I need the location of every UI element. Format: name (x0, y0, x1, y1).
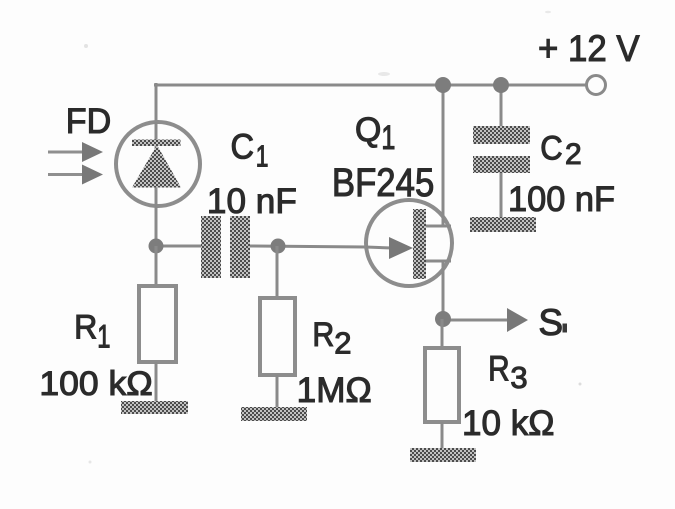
svg-text:1: 1 (381, 119, 395, 157)
svg-text:FD: FD (66, 102, 111, 141)
svg-text:100 kΩ: 100 kΩ (39, 365, 152, 403)
svg-text:R: R (74, 308, 97, 346)
svg-text:+ 12 V: + 12 V (538, 27, 640, 69)
svg-text:10 kΩ: 10 kΩ (462, 403, 555, 443)
svg-text:2: 2 (565, 138, 582, 171)
svg-text:3: 3 (510, 360, 527, 395)
svg-text:R: R (488, 350, 510, 389)
svg-text:10 nF: 10 nF (207, 181, 297, 221)
svg-text:2: 2 (334, 326, 351, 361)
svg-text:1MΩ: 1MΩ (297, 371, 372, 410)
svg-text:100 nF: 100 nF (508, 179, 615, 219)
svg-text:BF245: BF245 (332, 161, 434, 205)
svg-text:C: C (231, 127, 255, 166)
svg-text:R: R (312, 316, 334, 354)
svg-text:1: 1 (97, 318, 110, 354)
svg-text:S: S (538, 302, 563, 343)
svg-text:1: 1 (256, 138, 269, 173)
svg-text:Q: Q (355, 111, 381, 149)
svg-text:C: C (540, 129, 562, 167)
